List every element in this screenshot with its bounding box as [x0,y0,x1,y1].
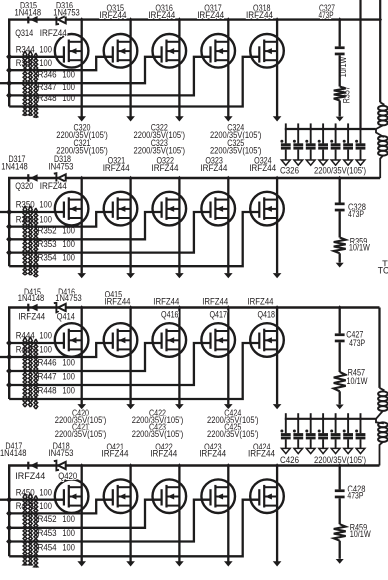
mosfet body [201,34,235,68]
wire [339,211,341,237]
svg-text:10/1W: 10/1W [349,243,371,253]
source terminal arrow [77,404,86,409]
svg-text:2200/35V(105'): 2200/35V(105') [55,429,107,439]
wire gate level 4 [9,212,210,253]
svg-text:R345: R345 [16,58,35,68]
capacitor C427 [335,333,345,336]
mosfet body [201,192,235,226]
svg-text:Q320: Q320 [15,181,33,191]
svg-text:Q416: Q416 [161,309,179,319]
wire drain-source vertical [81,20,83,117]
svg-text:R448: R448 [38,385,57,395]
wire center tap [375,418,378,420]
source terminal arrow [175,561,184,566]
svg-text:IRFZ44: IRFZ44 [199,449,226,459]
junction drain-rail [80,305,83,310]
junction [297,127,300,132]
svg-text:IRFZ44: IRFZ44 [105,296,131,306]
diode D317 [27,174,29,182]
svg-text:R451: R451 [16,501,35,511]
junction [309,127,312,132]
svg-text:473P: 473P [347,491,363,501]
wire drain-source vertical [178,308,180,405]
wire drain-source vertical [227,308,229,405]
svg-text:1N4148: 1N4148 [15,8,42,18]
source terminal arrow [126,273,135,278]
wire capacitor bank rail [285,128,376,130]
terminal arrow [336,263,344,268]
svg-text:10/1W: 10/1W [347,376,369,386]
resistor R459 [334,524,346,541]
wire drain-source vertical [81,466,83,562]
wire gate level 3 [9,57,161,83]
junction drain-rail [178,176,181,181]
junction node [6,92,12,99]
wire: row1 top rail [8,18,380,20]
resistor ladder chain A [23,337,27,407]
wire gate level 3 [9,212,161,239]
junction [346,417,349,422]
source terminal arrow [224,404,233,409]
junction node [6,340,12,347]
svg-text:IRFZ44: IRFZ44 [15,471,45,481]
source terminal arrow [273,561,282,566]
svg-text:100: 100 [62,253,75,263]
wire drain-source vertical [178,178,180,273]
svg-text:100: 100 [62,93,75,103]
svg-text:R352: R352 [38,226,57,236]
junction drain-rail [129,176,132,181]
wire branch vertical [339,20,341,47]
wire [339,541,341,559]
resistor ladder chain B [29,337,33,407]
junction [346,127,349,132]
resistor ladder chain A [23,494,27,566]
wire drain-source vertical [276,308,278,405]
mosfet body [104,479,138,513]
svg-text:R445: R445 [16,345,35,355]
junction node [6,368,12,375]
wire gate level 2 [9,212,113,227]
electrolytic capacitor (bank C326) #7 [360,123,362,143]
mosfet body [250,192,284,226]
mosfet body [55,192,89,226]
zener diode D318 [54,173,59,183]
electrolytic capacitor (bank C326) #2 [297,123,299,143]
wire [339,342,341,372]
source terminal arrow [77,273,86,278]
wire drain-source vertical [129,178,131,273]
svg-text:Q418: Q418 [257,309,275,319]
mosfet body [104,34,138,68]
wire drain-source vertical [129,308,131,405]
mosfet body [104,323,138,357]
terminal arrow [336,117,344,122]
svg-text:Q414: Q414 [57,311,75,321]
svg-text:Q420: Q420 [58,471,77,481]
electrolytic capacitor (bank C426) #6 [347,413,349,433]
transformer winding lower group [376,129,384,137]
wire drain-source vertical [178,466,180,562]
wire gate level 5 [9,343,259,399]
wire gate level 4 [9,500,210,542]
junction node [6,510,12,517]
svg-text:IRFZ44: IRFZ44 [100,10,127,20]
resistor ladder chain B [29,51,33,116]
svg-text:IRFZ44: IRFZ44 [18,311,45,321]
transformer winding upper group [380,102,384,105]
svg-text:IRFZ44: IRFZ44 [197,10,224,20]
svg-text:100: 100 [62,528,75,538]
junction [334,127,337,132]
resistor ladder chain C [34,208,38,277]
svg-text:IRFZ44: IRFZ44 [153,296,179,306]
mosfet body [55,323,89,357]
junction [338,17,341,22]
junction drain-rail [275,176,278,181]
mosfet body [153,192,187,226]
svg-text:R348: R348 [38,93,57,103]
svg-text:IN4753: IN4753 [49,161,74,171]
svg-text:100: 100 [39,45,52,55]
svg-text:100: 100 [39,501,52,511]
svg-text:100: 100 [39,200,52,210]
source terminal arrow [224,273,233,278]
electrolytic capacitor (bank C426) #5 [335,413,337,433]
resistor ladder chain B [29,206,33,275]
svg-text:IRFZ44: IRFZ44 [103,163,130,173]
resistor ladder chain C [34,496,38,568]
junction [334,417,337,422]
resistor R457 [334,372,346,391]
source terminal arrow [126,404,135,409]
wire gate level 2 [9,57,113,70]
junction drain-rail [129,305,132,310]
svg-text:2200/35V(105'): 2200/35V(105') [134,145,186,155]
wire drain-source vertical [276,466,278,562]
wire gate level 2 [9,500,113,514]
svg-text:TC60: TC60 [378,265,388,275]
terminal arrow [336,559,344,564]
svg-text:IRFZ44: IRFZ44 [148,10,175,20]
junction node [6,354,12,361]
wire vertical feed x=360 from top [359,0,361,129]
svg-text:IRFZ44: IRFZ44 [40,181,67,191]
resistor ladder chain A [23,206,27,275]
wire drain-source vertical [227,466,229,562]
resistor R357 [334,87,346,101]
junction node [6,209,12,216]
svg-text:R344: R344 [16,45,35,55]
svg-text:2200/35V(105'): 2200/35V(105') [132,429,184,439]
mosfet body [250,34,284,68]
svg-text:100: 100 [62,543,75,553]
electrolytic capacitor (bank C326) #1 [285,123,287,143]
svg-text:473P: 473P [348,209,364,219]
wire: row2 top rail [8,177,380,179]
svg-text:Q314: Q314 [15,28,33,38]
svg-text:R447: R447 [38,371,57,381]
left bus wire [8,20,10,107]
electrolytic capacitor (bank C326) #5 [335,123,337,143]
mosfet body [250,479,284,513]
capacitor C327 [335,46,345,49]
junction drain-rail [275,305,278,310]
wire drain-source vertical [81,308,83,405]
svg-text:R446: R446 [38,357,57,367]
svg-text:100: 100 [39,331,52,341]
svg-text:R347: R347 [38,82,57,92]
wire drain-source vertical [227,178,229,273]
junction node [6,54,12,61]
electrolytic capacitor (bank C326) #3 [310,123,312,143]
electrolytic capacitor (bank C426) #2 [297,413,299,433]
capacitor C428 [335,489,345,492]
mosfet body [104,192,138,226]
source terminal arrow [126,561,135,566]
svg-text:1N4148: 1N4148 [0,448,27,458]
svg-text:R450: R450 [16,487,35,497]
source terminal arrow [175,273,184,278]
svg-text:C426: C426 [280,455,299,465]
zener diode D418 [54,461,59,471]
wire capacitor bank rail [285,418,376,420]
junction drain-rail [178,305,181,310]
junction node [6,67,12,74]
left bus wire [8,178,10,266]
wire gate level 5 [9,500,259,557]
wire gate level 1 [9,499,64,501]
wire drain-source vertical [276,178,278,273]
source terminal arrow [224,561,233,566]
transformer winding lower group [376,419,384,424]
wire drain-source vertical [276,20,278,117]
junction [338,463,341,468]
svg-text:100: 100 [62,239,75,249]
junction node [6,80,12,87]
svg-text:100: 100 [62,226,75,236]
svg-text:R453: R453 [38,528,57,538]
electrolytic capacitor (bank C426) #3 [310,413,312,433]
svg-text:IRFZ44: IRFZ44 [150,449,177,459]
junction rail1 end [378,17,382,22]
wire branch vertical [339,178,341,203]
wire drain-source vertical [178,20,180,117]
svg-text:2200/35V(105'): 2200/35V(105') [210,145,262,155]
electrolytic capacitor (bank C426) #7 [360,413,362,433]
wire gate level 4 [9,343,210,385]
resistor ladder chain C [34,339,38,409]
svg-text:10/1W: 10/1W [338,56,348,77]
diode D417 [27,462,29,470]
wire center tap [375,128,378,130]
junction drain-rail [227,463,230,468]
wire gate level 1 [9,342,64,344]
svg-text:IRFZ44: IRFZ44 [202,296,228,306]
junction [338,305,341,310]
svg-text:100: 100 [62,514,75,524]
mosfet body [153,479,187,513]
junction drain-rail [178,463,181,468]
source terminal arrow [77,561,86,566]
svg-text:R350: R350 [16,200,35,210]
wire transformer feed [378,308,380,388]
junction drain-rail [227,305,230,310]
capacitor C328 [335,203,345,206]
mosfet body [153,323,187,357]
junction [321,417,324,422]
svg-text:IRFZ44: IRFZ44 [248,296,274,306]
svg-text:1N4148: 1N4148 [1,161,28,171]
wire branch vertical [339,308,341,334]
resistor ladder chain B [29,494,33,566]
junction node [6,249,12,256]
junction drain-rail [80,176,83,181]
wire gate level 1 [9,211,64,213]
junction [359,417,362,422]
svg-text:473P: 473P [319,10,334,20]
mosfet body [153,34,187,68]
wire input from left edge [0,356,9,358]
wire gate level 5 [9,57,259,107]
svg-text:IRFZ44: IRFZ44 [152,163,179,173]
mosfet body [201,323,235,357]
diode D315 [27,16,29,24]
mosfet body [201,479,235,513]
junction [321,127,324,132]
wire [339,253,341,262]
junction [338,176,341,181]
junction node [6,382,12,389]
svg-text:IN4753: IN4753 [49,448,74,458]
zener diode D416 [54,303,59,313]
wire vertical feed x=380 from top [379,0,381,101]
svg-text:R444: R444 [16,331,35,341]
svg-text:100: 100 [39,487,52,497]
transformer winding upper group [380,388,385,391]
svg-text:R351: R351 [16,214,35,224]
svg-text:R357: R357 [342,86,352,103]
svg-text:1N4753: 1N4753 [55,293,82,303]
svg-text:2200/35V(105'): 2200/35V(105') [314,165,366,175]
electrolytic capacitor (bank C426) #4 [322,413,324,433]
wire gate level 3 [9,500,161,528]
svg-text:2200/35V(105'): 2200/35V(105') [207,429,259,439]
zener diode D316 [54,15,59,25]
svg-text:100: 100 [39,345,52,355]
wire [339,498,341,524]
junction node [6,538,12,545]
left bus wire [8,466,10,557]
svg-text:100: 100 [62,385,75,395]
junction [359,127,362,132]
junction drain-rail [275,463,278,468]
junction drain-rail [275,17,278,22]
wire branch vertical [339,466,341,490]
junction node [6,525,12,532]
source terminal arrow [224,116,233,121]
electrolytic capacitor (bank C326) #4 [322,123,324,143]
source terminal arrow [77,116,86,121]
svg-text:IRFZ44: IRFZ44 [246,10,273,20]
junction [309,417,312,422]
wire drain-source vertical [129,20,131,117]
mosfet body [55,34,89,68]
svg-text:1N4753: 1N4753 [53,8,80,18]
junction node [6,236,12,243]
electrolytic capacitor (bank C326) #6 [347,123,349,143]
source terminal arrow [175,404,184,409]
source terminal arrow [126,116,135,121]
wire input from left edge [0,499,9,501]
wire transformer feed [379,101,381,103]
svg-text:100: 100 [62,82,75,92]
wire [339,55,341,86]
svg-text:R354: R354 [38,253,57,263]
junction drain-rail [129,17,132,22]
wire drain-source vertical [129,466,131,562]
svg-text:R454: R454 [38,543,57,553]
svg-text:Q417: Q417 [209,309,227,319]
junction drain-rail [80,17,83,22]
wire drain-source vertical [227,20,229,117]
source terminal arrow [273,404,282,409]
wire input from left edge [0,82,9,84]
svg-text:IRFZ44: IRFZ44 [102,449,129,459]
svg-text:R353: R353 [38,239,57,249]
source terminal arrow [273,273,282,278]
svg-text:10/1W: 10/1W [350,529,372,539]
svg-text:IRFZ44: IRFZ44 [200,163,227,173]
svg-text:R452: R452 [38,514,57,524]
svg-text:IRFZ44: IRFZ44 [40,28,67,38]
svg-text:100: 100 [62,357,75,367]
electrolytic capacitor (bank C426) #1 [285,413,287,433]
svg-text:IRFZ44: IRFZ44 [248,449,275,459]
resistor ladder chain A [23,51,27,116]
junction drain-rail [178,17,181,22]
wire: row3 top rail [8,306,380,308]
svg-text:473P: 473P [349,338,365,348]
resistor R359 [334,238,346,254]
left bus wire [8,308,10,400]
wire gate level 5 [9,212,259,266]
junction node [6,223,12,230]
diode D415 [27,304,29,312]
junction drain-rail [80,463,83,468]
wire input from left edge [0,211,9,213]
mosfet body [55,479,89,513]
wire gate level 1 [9,56,64,58]
junction drain-rail [227,17,230,22]
wire drain-source vertical [81,178,83,273]
wire [339,391,341,404]
wire gate level 4 [9,57,210,96]
svg-text:100: 100 [39,214,52,224]
svg-text:100: 100 [62,70,75,80]
mosfet body [250,323,284,357]
wire: row4 top rail [8,464,380,466]
junction drain-rail [129,463,132,468]
svg-text:100: 100 [39,58,52,68]
svg-text:C326: C326 [280,165,299,175]
source terminal arrow [175,116,184,121]
svg-text:100: 100 [62,371,75,381]
svg-text:IRFZ44: IRFZ44 [249,163,276,173]
terminal arrow [336,405,344,410]
source terminal arrow [273,116,282,121]
svg-text:R346: R346 [38,70,57,80]
